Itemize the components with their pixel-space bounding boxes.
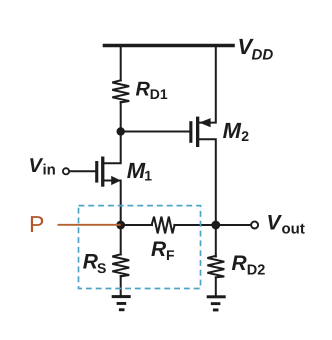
wire output node to RD2	[215, 225, 217, 257]
wire RD1 to node A	[120, 102, 122, 132]
VDD rail	[105, 44, 234, 48]
node A junction dot	[117, 127, 125, 135]
ground under RS	[112, 295, 131, 311]
M2 source lead from VDD	[199, 46, 215, 123]
resistor RD1	[112, 80, 129, 102]
transistor M2	[189, 117, 210, 147]
svg-text:F: F	[166, 247, 175, 263]
resistor RS	[112, 254, 129, 276]
wire RS to ground	[120, 276, 122, 296]
svg-text:M: M	[223, 118, 242, 143]
input terminal circle	[63, 168, 69, 174]
wire VDD to RD1	[120, 46, 122, 81]
svg-text:in: in	[43, 162, 56, 179]
M2 drain lead	[199, 139, 215, 225]
svg-text:2: 2	[241, 128, 249, 144]
wire RF to output node	[174, 224, 215, 226]
svg-text:V: V	[29, 155, 44, 177]
svg-text:D1: D1	[150, 86, 168, 102]
svg-text:out: out	[282, 221, 305, 238]
svg-text:R: R	[151, 238, 167, 261]
wire RD2 to ground	[215, 278, 217, 296]
svg-text:V: V	[267, 211, 283, 234]
svg-text:M: M	[127, 158, 146, 183]
svg-text:R: R	[232, 252, 248, 275]
node P junction dot	[116, 221, 125, 230]
output node junction dot	[211, 221, 220, 230]
svg-text:DD: DD	[252, 47, 274, 64]
output terminal circle	[251, 222, 258, 229]
svg-text:R: R	[136, 78, 151, 100]
wire P to RF	[121, 224, 152, 226]
svg-text:S: S	[97, 260, 106, 276]
svg-text:D2: D2	[247, 263, 266, 279]
resistor RD2	[207, 256, 224, 277]
svg-text:1: 1	[144, 168, 152, 184]
wire output node to Vout terminal	[216, 224, 251, 226]
svg-text:P: P	[29, 211, 44, 237]
transistor M1	[95, 157, 121, 187]
wire node A to M2 gate	[121, 131, 190, 133]
M1 gate lead	[69, 170, 95, 172]
resistor RF	[152, 217, 175, 234]
dashed feedback box	[79, 206, 201, 289]
wire orange from P label to node P	[58, 224, 121, 226]
ground under RD2	[207, 295, 226, 311]
wire node A to M1 drain	[104, 132, 120, 164]
wire P to RS	[120, 225, 122, 255]
M1 source lead	[104, 181, 120, 226]
